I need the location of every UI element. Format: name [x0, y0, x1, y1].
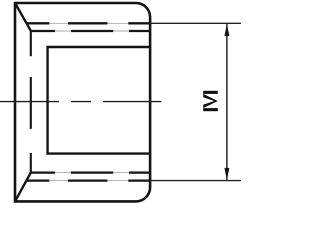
hidden thread line top inner (dashed) y=31: [31, 30, 150, 32]
chamfer edge top-left: [15, 4, 30, 31]
dimension arrowhead bottom: [224, 168, 229, 180]
hidden thread end vertical (dashed) x=30.8: [30, 31, 32, 173]
inner bore rectangle (counterbore outline): [48, 47, 151, 154]
hidden thread line bottom outer (dashed) y=180.6: [27, 179, 151, 181]
thin underlay line, thread root bottom: [31, 172, 150, 174]
thin underlay line, thread crest top: [27, 22, 151, 24]
nut outer profile (body outline with rounded right corners): [15, 3, 150, 201]
hidden thread line bottom inner (dashed) y=172.6: [31, 171, 150, 173]
dimension label M (rotated): right stem bar: [203, 91, 218, 94]
dimension label M: left stem bar: [203, 108, 218, 111]
extension line bottom (dimension): [150, 180, 241, 182]
thin underlay line, thread root top: [31, 30, 150, 32]
centerline (axis, dash-dot) y=101.6: [0, 101, 162, 103]
dimension arrowhead top: [224, 24, 229, 36]
hidden thread line top outer (dashed) y=23.3: [27, 22, 151, 24]
thin underlay line, thread crest bottom: [27, 180, 151, 182]
extension line top (dimension): [150, 22, 241, 24]
dimension label M: middle V strokes: [203, 94, 218, 108]
dimension line M (vertical) x=226.9: [226, 24, 228, 180]
chamfer edge bottom-left: [15, 173, 30, 201]
